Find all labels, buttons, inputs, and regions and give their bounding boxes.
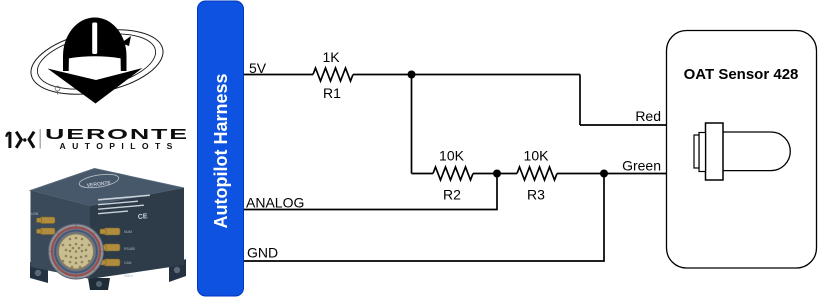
resistor R2 (433, 167, 473, 180)
orbit swirl outer ellipse (26, 20, 169, 104)
hw circular connector (49, 224, 104, 279)
svg-text:GND: GND (247, 245, 278, 261)
hw mounting flange left (30, 262, 48, 283)
schematic wires and components (244, 68, 666, 261)
svg-text:Green: Green (622, 158, 661, 174)
resistor R3 (517, 167, 557, 180)
hw top face (31, 169, 185, 207)
hw gold connectors left (37, 217, 56, 235)
svg-text:OAT Sensor 428: OAT Sensor 428 (684, 66, 799, 83)
hw top logo print (78, 172, 119, 190)
wire R2 to R3 (473, 173, 517, 175)
node C junction dot (600, 170, 608, 178)
wire Red (580, 124, 666, 126)
helmet slit (92, 23, 97, 55)
wordmark symbol dot (23, 138, 26, 141)
svg-text:NUM: NUM (124, 230, 132, 234)
sensor bulb body (722, 132, 790, 171)
wire R1 to node A (353, 74, 580, 76)
wordmark symbol right chevron (16, 132, 21, 148)
svg-text:MAIN: MAIN (124, 274, 133, 278)
node B junction dot (493, 170, 501, 178)
wordmark symbol "1" (6, 132, 10, 148)
node A junction dot (408, 71, 416, 79)
hw front face (90, 188, 184, 279)
svg-text:CAN: CAN (124, 261, 132, 265)
OAT Sensor 428 box (667, 31, 817, 269)
sensor ring 1 (694, 135, 699, 168)
svg-text:R1: R1 (323, 85, 341, 101)
swirl arrowhead (121, 36, 131, 46)
wire GND (244, 174, 604, 262)
wordmark symbol left chevron (29, 132, 34, 148)
wire Green (557, 173, 666, 175)
svg-text:Autopilot Harness: Autopilot Harness (211, 73, 231, 228)
wire down to Red (579, 75, 581, 126)
hw left face (31, 191, 91, 280)
svg-text:R2: R2 (443, 187, 461, 203)
sensor ring 2 (699, 133, 706, 172)
hw front label (98, 194, 150, 221)
sensor flange (706, 123, 724, 180)
svg-text:10K: 10K (439, 148, 465, 164)
hw mounting flange right (169, 259, 186, 282)
svg-text:RS485: RS485 (124, 247, 135, 251)
hw gold connectors right (100, 228, 120, 266)
svg-text:AUTOPILOTS: AUTOPILOTS (60, 141, 179, 151)
wire 5V (244, 74, 313, 76)
svg-text:ANALOG: ANALOG (246, 195, 304, 211)
svg-text:Red: Red (635, 108, 661, 124)
svg-text:USB: USB (31, 212, 39, 216)
location pin (55, 86, 60, 91)
resistor R1 (313, 68, 353, 81)
svg-text:R3: R3 (527, 187, 545, 203)
wire node A down (411, 75, 413, 174)
autopilot hardware photo (illustration) (30, 169, 186, 291)
svg-text:CE: CE (138, 213, 149, 221)
svg-text:5V: 5V (249, 60, 267, 76)
Autopilot Harness blue bar (198, 1, 244, 296)
down arrow chevron (48, 68, 143, 104)
orbit swirl inner ellipse (33, 25, 161, 98)
svg-text:1K: 1K (322, 49, 340, 65)
wire ANALOG (244, 174, 497, 210)
Veronte emblem logo (26, 18, 169, 105)
svg-text:10K: 10K (524, 148, 550, 164)
hw port labels (31, 212, 135, 278)
wire to R2 (412, 173, 434, 175)
wordmark separator (39, 129, 41, 149)
helmet dome with visor (63, 18, 127, 72)
hw mounting flange center (88, 278, 110, 290)
